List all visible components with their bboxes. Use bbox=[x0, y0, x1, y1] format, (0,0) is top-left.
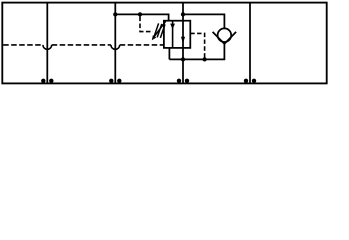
station divider line 4 bbox=[249, 3, 251, 84]
node: junction dot at (205,59) bbox=[202, 57, 206, 61]
valve left flow path line bbox=[172, 21, 174, 48]
enclosure (manifold block outline) bbox=[2, 3, 326, 84]
station divider line 3 (runs through valve right flow path) bbox=[182, 3, 184, 84]
station divider line 1 bbox=[46, 3, 48, 84]
node: junction dot at (183,14) bbox=[181, 12, 185, 16]
port P3 dots at bottom of station line 3 bbox=[177, 79, 181, 83]
valve U1 envelope (pressure reducing valve body) bbox=[164, 21, 190, 48]
port P1 dots at bottom of station line 1 bbox=[41, 79, 45, 83]
wire: valve outlet stub below envelope bbox=[168, 48, 170, 60]
wire: outlet line to check valve bottom bbox=[169, 44, 224, 60]
check valve CV1 seat (V) bbox=[213, 32, 237, 44]
port P2 dots at bottom of station line 2 bbox=[109, 79, 113, 83]
node: junction dot at (115,14) bbox=[113, 12, 117, 16]
pilot sense line (dashed) from valve right side down to outlet bbox=[190, 33, 204, 57]
spring coil stroke 3 bbox=[160, 24, 165, 38]
wire: supply line A from node at x=115 to valve left inlet bbox=[115, 14, 168, 20]
main pilot drain line (dashed) segment 2 bbox=[52, 44, 111, 46]
hop (crossing) at station line 1 bbox=[43, 45, 52, 49]
spring (adjustable) coil stroke 1 bbox=[154, 23, 159, 37]
pilot line (dashed) from node (140,14) down and right to spring side bbox=[140, 17, 153, 32]
main pilot drain line (dashed) segment 3 to valve body bbox=[120, 44, 164, 46]
node: junction dot at (183,59) bbox=[181, 57, 185, 61]
port P4 dots at bottom of station line 4 bbox=[244, 79, 248, 83]
adjustment arrow head (filled, pointing lower-left) bbox=[152, 35, 157, 40]
adjustment arrow shaft across spring bbox=[154, 21, 165, 36]
valve left flow path arrowhead (down) bbox=[170, 24, 175, 30]
check valve CV1 ball (circle) bbox=[218, 28, 232, 42]
valve right flow path arrowhead (down, on station line 3) bbox=[181, 37, 185, 43]
station divider line 2 bbox=[114, 3, 116, 84]
wire: supply line B from node at x=183 to check valve top bbox=[183, 14, 224, 28]
spring coil stroke 2 bbox=[157, 24, 162, 38]
node: junction dot at (140,14) bbox=[138, 12, 142, 16]
hop (crossing) at station line 2 bbox=[111, 45, 120, 49]
main pilot drain line (dashed) with hops at station lines bbox=[3, 44, 43, 46]
